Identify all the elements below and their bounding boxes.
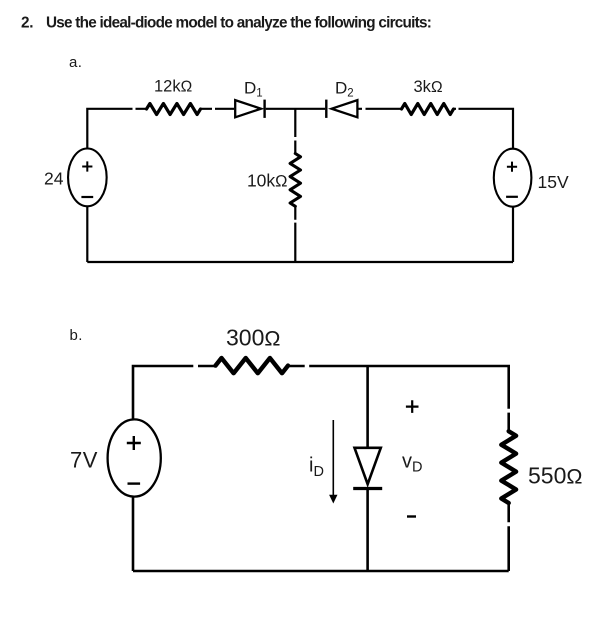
diode D2 — [326, 100, 357, 118]
resistor R5 550Ω — [501, 431, 516, 503]
svg-text:550Ω: 550Ω — [528, 463, 582, 489]
diode D3 — [353, 448, 382, 489]
svg-text:v: v — [402, 450, 412, 472]
current arrow iD — [329, 420, 337, 504]
diode D1 — [235, 100, 264, 118]
svg-text:10kΩ: 10kΩ — [247, 171, 288, 191]
wire: circuit b left bottom — [132, 497, 135, 571]
svg-text:15V: 15V — [538, 172, 569, 192]
label vD minus — [407, 515, 416, 517]
source V1 24V — [68, 149, 107, 207]
wire: circuit b top rail — [133, 366, 509, 431]
wire: circuit a right rail lower and bottom rail — [87, 207, 513, 262]
resistor R3 3kΩ — [402, 104, 454, 115]
svg-text:12kΩ: 12kΩ — [154, 78, 192, 96]
wire: circuit b right bottom and bottom rail — [133, 503, 509, 571]
resistor R1 12kΩ — [147, 104, 201, 115]
label vD plus — [406, 400, 419, 413]
resistor R2 10kΩ (vertical) — [290, 154, 300, 207]
resistor R4 300Ω — [216, 358, 289, 373]
svg-text:7V: 7V — [70, 448, 98, 473]
svg-text:3kΩ: 3kΩ — [414, 78, 443, 96]
svg-text:b.: b. — [70, 327, 83, 344]
svg-text:a.: a. — [69, 54, 82, 71]
wire: circuit a left rail lower — [86, 206, 88, 262]
svg-text:D: D — [412, 460, 422, 476]
source V2 15V — [494, 149, 532, 207]
source V3 7V — [108, 419, 161, 496]
wire: diode branch vertical — [366, 366, 369, 571]
svg-text:D: D — [314, 464, 324, 480]
svg-text:300Ω: 300Ω — [226, 325, 280, 351]
svg-text:2.: 2. — [21, 15, 33, 32]
svg-text:Use the ideal-diode model to a: Use the ideal-diode model to analyze the… — [46, 15, 431, 32]
wire: circuit a left rail and top rail — [87, 109, 513, 149]
svg-text:24: 24 — [44, 168, 64, 188]
node: middle branch of circuit a — [294, 109, 296, 262]
